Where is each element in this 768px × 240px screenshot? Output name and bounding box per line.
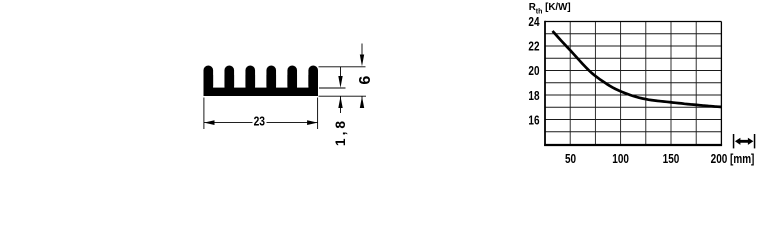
chart minor vertical gridlines: [570, 22, 696, 145]
heatsink fin 4: [266, 66, 276, 91]
chart x axis: [544, 144, 722, 146]
length pictogram: right bar: [754, 134, 756, 148]
dimension 23: extension line right: [317, 98, 319, 130]
dimension 1,8: upper tail line: [340, 67, 342, 80]
svg-text:200: 200: [711, 153, 728, 166]
heatsink fin 2: [224, 66, 234, 91]
dimension 1,8: lower tail line: [340, 96, 342, 113]
dimension 23: extension line left: [203, 98, 205, 130]
chart y axis: [544, 21, 546, 146]
svg-text:22: 22: [528, 40, 539, 53]
dimension 1,8: lower arrowhead (up): [338, 96, 342, 108]
dimension 6: lower tail line: [361, 96, 363, 107]
heatsink base: [204, 88, 319, 96]
svg-text:16: 16: [528, 114, 539, 127]
svg-text:50: 50: [565, 153, 576, 166]
dimension 23: right arrowhead: [307, 120, 318, 125]
svg-text:Rth [K/W]: Rth [K/W]: [529, 2, 571, 15]
svg-text:18: 18: [528, 90, 540, 103]
chart top border: [545, 21, 721, 23]
dimension 23: dim line right segment: [267, 122, 319, 124]
svg-text:150: 150: [663, 153, 680, 166]
heatsink fin 3: [245, 66, 255, 91]
dimension 23: dim line left segment: [204, 122, 253, 124]
svg-text:6: 6: [357, 76, 374, 85]
length pictogram: left bar: [733, 134, 735, 148]
dimension 23: left arrowhead: [204, 120, 215, 125]
chart horizontal gridlines: [545, 34, 721, 132]
dimension 6: upper tail line: [361, 44, 363, 61]
svg-text:23: 23: [254, 113, 266, 129]
svg-text:100: 100: [612, 153, 629, 166]
dimension 6: lower arrowhead (up): [360, 96, 364, 108]
Rth curve: [553, 31, 722, 107]
dimension 1,8: upper arrowhead (down): [338, 76, 342, 88]
heatsink fin 1: [204, 66, 214, 91]
extension line fins-top (for dim 6): [319, 66, 366, 68]
chart right border: [720, 22, 722, 145]
heatsink fin 6: [308, 66, 318, 91]
svg-text:1,8: 1,8: [333, 118, 348, 146]
length pictogram: double arrow: [735, 138, 754, 145]
svg-text:20: 20: [528, 65, 539, 78]
extension line base-top (for dim 1,8): [319, 87, 346, 89]
svg-text:[mm]: [mm]: [730, 153, 755, 166]
dimension 6: upper arrowhead (down): [360, 55, 364, 67]
svg-text:24: 24: [528, 16, 540, 29]
heatsink fin 5: [287, 66, 297, 91]
extension line base-bottom (for dims): [319, 95, 367, 97]
